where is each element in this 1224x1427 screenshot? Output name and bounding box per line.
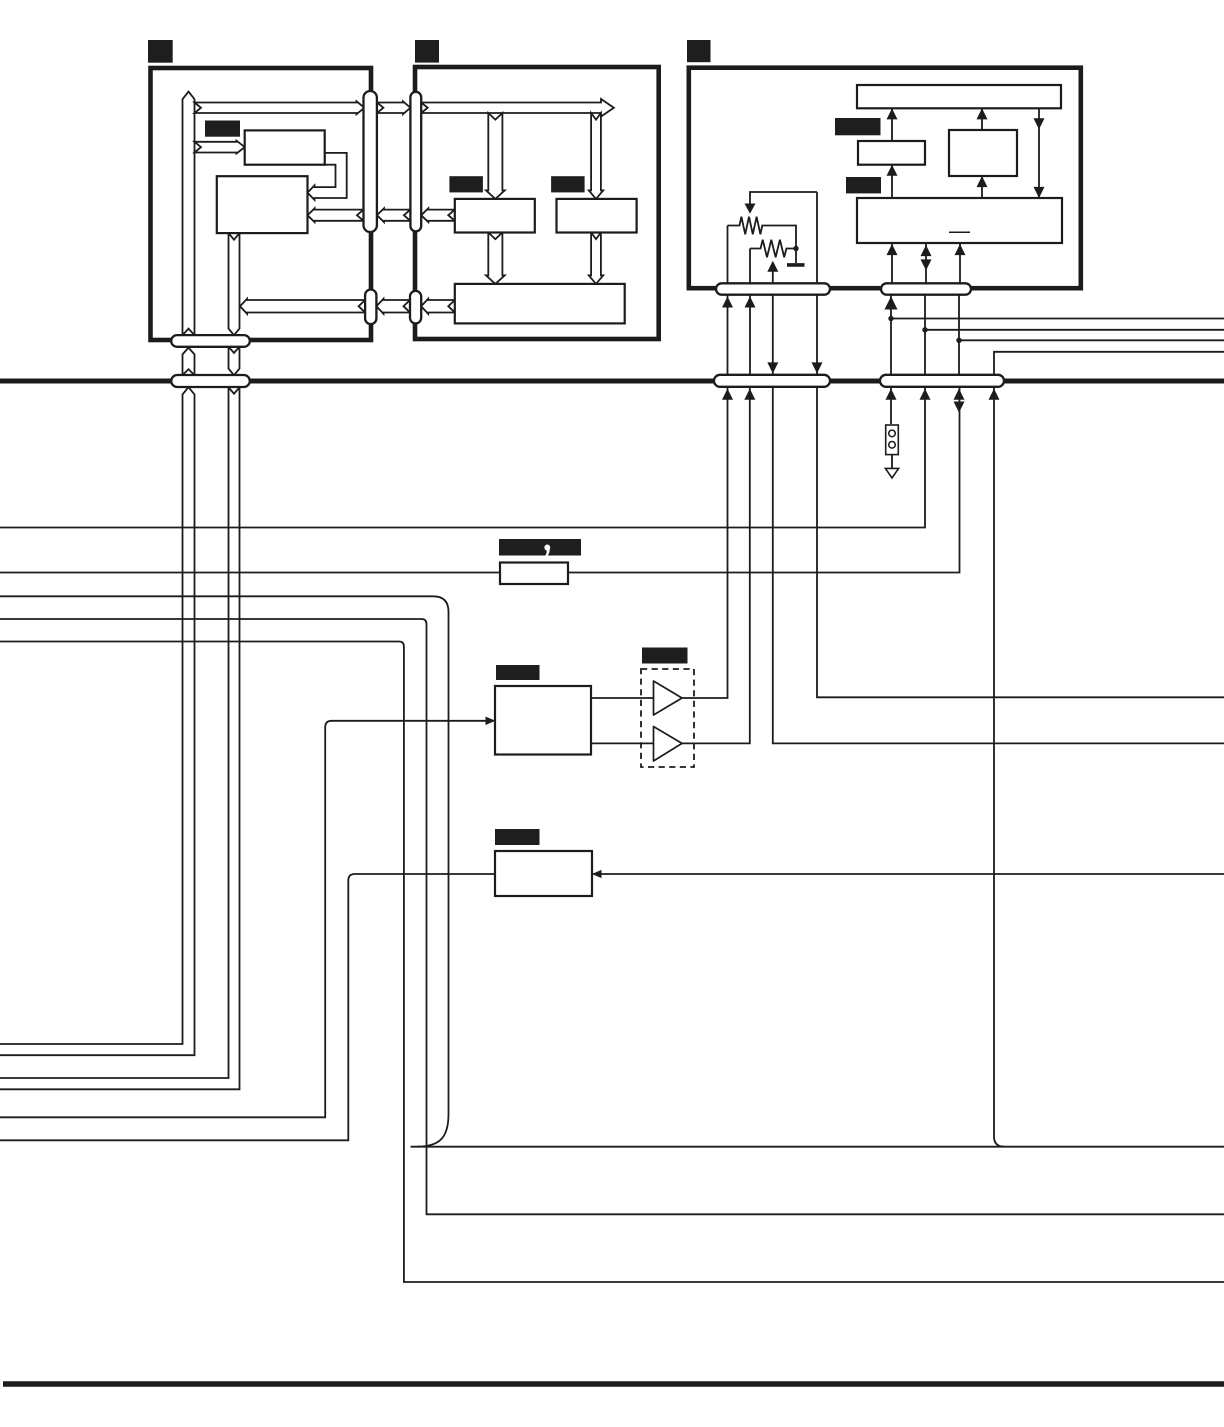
- IC6 board C top: [857, 85, 1061, 108]
- wire bottom rail A to right edge: [411, 1146, 1224, 1148]
- connector main harness right: [880, 375, 1004, 387]
- wire p4 continues to right edge: [817, 387, 1224, 698]
- system control small box: [500, 563, 568, 585]
- IC7 board C small: [858, 141, 925, 165]
- label system control with comma: [499, 539, 581, 556]
- connector board A bottom: [171, 335, 250, 347]
- arrow into IC9 c (up): [955, 244, 966, 255]
- bus CN segment between boards (points left): [376, 299, 410, 314]
- bus DT segment between boards (points left): [377, 208, 411, 222]
- wire loop right leg down to connector: [816, 192, 818, 283]
- amp buffer 1: [654, 681, 683, 715]
- bus DT segment into IC2 (points left): [308, 208, 364, 222]
- arrow into mute box (left): [592, 870, 602, 878]
- arrow p4 down: [812, 362, 823, 373]
- connector board C bottom right: [881, 283, 971, 294]
- IC9 board C bottom: [857, 198, 1062, 243]
- arrow into IC9 a (up): [887, 244, 898, 255]
- connector board A right lower: [365, 290, 376, 325]
- bus CN segment board A (points left): [240, 299, 365, 314]
- arrow q3b down: [954, 402, 965, 413]
- open arrow down (cable end): [885, 468, 898, 478]
- bus elbow IC1 to IC2 (points left): [308, 153, 347, 200]
- wire volume loop top: [750, 192, 817, 204]
- connector board C bottom left: [716, 283, 830, 294]
- wire q2 down, bends left to edge: [0, 387, 925, 528]
- main wiring harness rail: [0, 379, 1224, 384]
- arrow p3 down: [767, 362, 778, 373]
- potentiometer VR2: [750, 240, 796, 258]
- bus CN segment inside board B (points left): [421, 299, 455, 314]
- arrow amp2 up: [744, 389, 755, 400]
- wire from left edge up into selector: [0, 721, 486, 1118]
- wire VR2 left lead down to connector: [749, 249, 751, 284]
- selector box: [495, 686, 591, 755]
- wire q1 between connectors: [890, 295, 892, 375]
- board A outline: [151, 68, 372, 340]
- IC5 board B: [455, 284, 625, 324]
- wire VR2 wiper line: [772, 272, 774, 284]
- test point connector body: [886, 425, 899, 455]
- connector main harness left: [171, 375, 250, 387]
- wire q2 between connectors: [924, 295, 926, 375]
- potentiometer VR1: [728, 217, 797, 249]
- mute box: [495, 851, 592, 896]
- wire q3 between connectors: [958, 295, 960, 375]
- junction dot q1: [888, 316, 893, 321]
- wire p2 between connectors: [749, 295, 751, 375]
- IC3 board B: [455, 199, 535, 233]
- bus from IC3 into IC5 (points down): [486, 233, 505, 284]
- label mute: [495, 829, 540, 845]
- arrow IC9 to IC8 (up): [981, 176, 983, 198]
- arrow p1 up: [722, 296, 733, 307]
- bottom rail: [3, 1381, 1224, 1386]
- wire loop A left edge to bottom rail: [0, 596, 449, 1146]
- test point pin 2: [889, 442, 896, 449]
- bus from AD bus into IC3 (points down): [486, 113, 505, 199]
- label IC4: [551, 176, 585, 192]
- arrow IC6-IC9 lower (down): [1034, 187, 1045, 198]
- wire loop C left edge to bottom rail: [0, 642, 1224, 1283]
- wire q4 from right edge into main connector: [994, 352, 1224, 375]
- IC2 board A: [217, 176, 308, 233]
- label selector: [496, 665, 540, 680]
- IC8 board C mid: [949, 130, 1017, 176]
- arrow q3b up: [954, 389, 965, 400]
- wire q1 branch to right edge: [891, 318, 1224, 320]
- arrow q1b up: [886, 389, 897, 400]
- wire q3 down, bends left to edge: [0, 387, 960, 573]
- wire IC9 pin b to connector: [925, 243, 927, 283]
- board B outline: [415, 67, 659, 339]
- board C outline: [689, 68, 1081, 289]
- arrow q2b up: [920, 389, 931, 400]
- arrow q4 up: [989, 389, 1000, 400]
- wire loop B left edge to bottom rail: [0, 619, 1224, 1214]
- connector board B left lower: [410, 291, 421, 324]
- arrow wiper VR1 (down): [745, 204, 756, 214]
- wire headphone amp 1 output to main harness: [682, 387, 728, 698]
- label IC1: [205, 121, 240, 137]
- wire node to ground: [795, 249, 797, 264]
- wire IC9 pin c to connector: [959, 243, 961, 283]
- bus from IC4 into IC5 (points down): [589, 233, 603, 284]
- bus DB2 segment between connectors (points down): [229, 347, 240, 375]
- wire q2 branch to right edge: [925, 329, 1224, 331]
- bus AD segment board A (points right): [195, 101, 365, 114]
- arrow amp1 up: [722, 389, 733, 400]
- wire q4 down to bottom rail: [994, 387, 1004, 1147]
- wire IC6 down to IC9: [1038, 108, 1040, 198]
- wire IC9 pin a to connector: [891, 243, 893, 283]
- bus DT segment inside board B (points left): [421, 208, 455, 222]
- wire selector to amp 1: [591, 697, 654, 699]
- wire VR1 left lead down to connector: [727, 226, 729, 284]
- bus arrow into IC1 (points right): [195, 141, 245, 154]
- arrow IC7 to IC6 (up): [891, 108, 893, 141]
- wire from right edge into mute box: [592, 873, 1224, 875]
- connector board B left upper: [410, 92, 421, 232]
- section tag board C: [687, 40, 711, 62]
- label IC3: [449, 176, 483, 192]
- arrow IC8 to IC6 (up): [981, 108, 983, 130]
- IC4 board B: [557, 199, 637, 233]
- wire p3 continues to right edge: [773, 387, 1224, 744]
- wire p3 between connectors: [772, 295, 774, 375]
- arrow IC9 b up: [921, 245, 932, 256]
- bus DB2 segment below main harness, elbow to left edge: [0, 387, 240, 1089]
- wire below test connector: [891, 454, 893, 468]
- label IC9: [846, 177, 881, 193]
- amp buffer 2: [654, 727, 683, 762]
- wire p1 between connectors: [727, 295, 729, 375]
- wire headphone amp 2 output to main harness: [682, 387, 750, 744]
- arrow p2 up: [745, 296, 756, 307]
- arrow q1 up (large): [885, 296, 898, 309]
- bus DB2 segment from IC2 to connector (points down): [229, 233, 240, 335]
- arrow IC6-IC9 upper (down): [1034, 118, 1045, 129]
- junction dot q2: [922, 327, 927, 332]
- section tag board A: [148, 40, 173, 63]
- headphone amp dashed box: [641, 669, 694, 767]
- ground: [787, 263, 805, 267]
- bus DB1 segment between connectors (points up): [183, 348, 195, 376]
- bus AD segment between boards (points right): [377, 101, 411, 114]
- bus from AD bus into IC4 (points down): [589, 113, 603, 199]
- connector main harness centre: [714, 375, 830, 387]
- section tag board B: [415, 40, 439, 63]
- wire p4 between connectors: [816, 295, 818, 375]
- junction dot q3: [956, 338, 961, 343]
- arrow into selector (right): [486, 717, 496, 725]
- bus DB1 segment inside board A (points up): [183, 92, 195, 336]
- wire q1 to test connector: [890, 387, 892, 424]
- IC9 label underline: [949, 231, 970, 233]
- junction node VR: [793, 246, 798, 251]
- bus AD segment inside board B (points right): [421, 99, 614, 117]
- wire selector to amp 2: [591, 742, 654, 744]
- label IC6: [835, 118, 881, 135]
- label headphone amp: [642, 648, 688, 664]
- arrow IC9 b down: [921, 259, 932, 270]
- bus DB1 segment below main harness, elbow to left edge (points up): [0, 387, 195, 1055]
- wire from left edge up into mute box: [0, 874, 495, 1140]
- test point pin 1: [889, 430, 896, 437]
- IC1 board A: [245, 130, 325, 164]
- arrow wiper VR2 (up): [767, 261, 778, 272]
- arrow IC9 to IC7 (up): [891, 165, 893, 198]
- wire q3 branch to right edge: [959, 339, 1224, 341]
- connector board A right upper: [364, 91, 377, 232]
